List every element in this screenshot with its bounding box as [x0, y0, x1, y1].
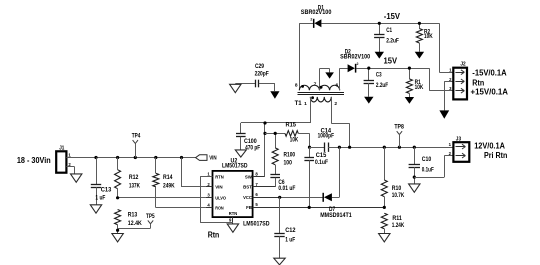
pin 5 FB: [253, 207, 385, 209]
svg-text:RTN: RTN: [215, 175, 224, 180]
wire VIN branch to pin2: [181, 158, 183, 188]
svg-text:100: 100: [284, 160, 293, 167]
wire T1 pin6 to D2: [339, 68, 341, 90]
svg-text:12.4K: 12.4K: [128, 220, 142, 227]
wire node X riser: [309, 133, 311, 147]
svg-text:MMSD914T1: MMSD914T1: [320, 212, 352, 219]
svg-text:2.2uF: 2.2uF: [386, 37, 399, 44]
svg-text:10K: 10K: [415, 84, 424, 91]
capacitor C29: [235, 63, 275, 91]
svg-text:137K: 137K: [129, 182, 140, 189]
ground (primary) at C29 left: [230, 84, 241, 92]
svg-text:1.24K: 1.24K: [392, 222, 405, 229]
svg-text:Pri Rtn: Pri Rtn: [484, 151, 508, 160]
svg-text:1000pF: 1000pF: [318, 133, 335, 140]
capacitor C3: [364, 67, 389, 97]
connector J3: [449, 136, 470, 162]
wire SW riser: [264, 123, 266, 177]
capacitor C100: [236, 123, 260, 151]
test point TP4: [132, 133, 141, 158]
svg-text:-15V/0.1A: -15V/0.1A: [472, 68, 507, 77]
ground Rtn at T1 pin7: [325, 72, 334, 78]
svg-text:C29: C29: [255, 63, 264, 70]
svg-text:J1: J1: [59, 145, 64, 151]
op-amp U2 LM5017SD body: [213, 158, 253, 217]
wire RON to pin4: [156, 207, 206, 209]
svg-text:J3: J3: [456, 136, 461, 142]
resistor R12: [115, 158, 141, 198]
pin 3 ULVO: [206, 197, 213, 199]
ground (primary) at C100: [235, 150, 246, 157]
wire 15V rail: [340, 68, 348, 70]
svg-text:R14: R14: [163, 174, 173, 181]
svg-text:C13: C13: [101, 187, 112, 194]
svg-text:1 uF: 1 uF: [95, 194, 105, 201]
svg-text:R100: R100: [284, 152, 296, 159]
svg-text:T1: T1: [295, 100, 303, 107]
svg-text:1: 1: [304, 101, 307, 106]
svg-text:-15V: -15V: [384, 12, 401, 21]
svg-text:C15: C15: [316, 152, 327, 159]
svg-text:2: 2: [334, 101, 337, 106]
wire -15V rail: [299, 23, 313, 25]
wire J1 pin2 to ground: [66, 166, 74, 168]
svg-text:SBR02V100: SBR02V100: [301, 9, 332, 16]
svg-text:2: 2: [310, 18, 312, 22]
wire J2 pin2 to Rtn: [444, 81, 453, 83]
svg-text:C3: C3: [376, 72, 382, 79]
pin 6 VCC: [253, 197, 280, 199]
svg-text:470 pF: 470 pF: [245, 144, 260, 151]
svg-text:TP5: TP5: [146, 213, 155, 220]
svg-text:10K: 10K: [424, 33, 433, 40]
svg-text:R13: R13: [128, 212, 138, 219]
ground (primary) at C12: [274, 258, 285, 265]
svg-text:6: 6: [336, 82, 339, 87]
test point TP5: [118, 213, 155, 229]
resistor R10: [381, 147, 404, 209]
svg-text:SW: SW: [245, 175, 253, 180]
ground (primary) at U2 pad: [227, 224, 238, 232]
svg-text:2.2uF: 2.2uF: [376, 82, 388, 89]
svg-text:R10: R10: [392, 185, 402, 192]
connector J2: [449, 62, 467, 100]
diode D2: [340, 49, 370, 73]
wire T1 pin2 to 12V line: [331, 97, 333, 124]
svg-text:10.7K: 10.7K: [392, 192, 405, 199]
svg-text:+15V/0.1A: +15V/0.1A: [471, 87, 509, 96]
ground Rtn under C3: [364, 97, 373, 104]
svg-text:VIN: VIN: [209, 155, 217, 161]
capacitor C12: [274, 197, 296, 258]
svg-text:ULVO: ULVO: [215, 196, 226, 201]
diode D7: [278, 193, 352, 219]
pin 1 RTN: [206, 176, 213, 178]
wire 15V to J2 pin3: [429, 68, 431, 90]
svg-text:C1: C1: [386, 27, 392, 34]
resistor R100: [272, 132, 295, 175]
pin 2 VIN: [206, 186, 213, 188]
svg-text:12V/0.1A: 12V/0.1A: [474, 141, 505, 150]
svg-text:8: 8: [295, 82, 298, 87]
ground Rtn under C1: [375, 52, 384, 59]
ground (primary) at J1 pin2: [71, 174, 82, 182]
svg-text:C12: C12: [285, 227, 296, 234]
svg-text:RON: RON: [215, 205, 224, 210]
pin 8 SW: [253, 176, 265, 178]
svg-text:Rtn: Rtn: [472, 78, 484, 87]
svg-text:249K: 249K: [163, 182, 175, 189]
svg-text:R12: R12: [129, 174, 139, 181]
svg-text:VCC: VCC: [243, 195, 252, 200]
svg-text:TP4: TP4: [132, 133, 141, 140]
resistor R11: [381, 213, 404, 233]
capacitor C10: [409, 147, 434, 184]
svg-text:220pF: 220pF: [255, 71, 269, 78]
svg-text:J2: J2: [460, 62, 465, 68]
ground (primary) at C10: [409, 184, 420, 192]
wire T1 pin8 riser: [299, 23, 301, 90]
resistor R15: [265, 122, 310, 144]
resistor R2: [416, 22, 433, 52]
svg-text:LM5017SD: LM5017SD: [243, 220, 270, 227]
wire pin1 RTN to pad ground: [200, 176, 212, 178]
resistor R1: [406, 67, 423, 98]
ground Rtn under R1: [405, 97, 414, 104]
ground Rtn at J2 pin2: [439, 110, 449, 118]
svg-text:R15: R15: [286, 122, 297, 129]
ground (primary) at R11: [379, 234, 390, 242]
svg-text:FB: FB: [246, 205, 252, 210]
wire D7 branch riser: [339, 147, 341, 197]
wire 12V line: [339, 147, 453, 149]
svg-text:TP8: TP8: [394, 124, 404, 131]
transformer T1 primary winding: [295, 96, 338, 107]
svg-text:1 uF: 1 uF: [285, 236, 295, 243]
capacitor C1: [374, 22, 399, 52]
wire input rail: [66, 157, 195, 159]
wire UVLO divider node to pin3: [118, 197, 206, 199]
wire T1 pin7 center tap to Rtn: [319, 69, 321, 91]
ground Rtn under R2: [415, 52, 424, 59]
transformer T1 core: [298, 92, 345, 94]
ground (primary) at C13: [90, 205, 101, 213]
node VIN flag: [196, 155, 217, 162]
resistor R13: [115, 210, 143, 234]
svg-text:0.01 uF: 0.01 uF: [278, 185, 295, 192]
capacitor C15: [304, 147, 328, 209]
ground Rtn at C29 right: [270, 91, 279, 98]
pin 7 BST: [253, 186, 276, 188]
svg-text:15V: 15V: [384, 56, 398, 65]
wire J3 pin2 to Pri Rtn: [444, 155, 453, 157]
transformer T1 secondary winding: [295, 82, 340, 91]
svg-text:0.1uF: 0.1uF: [315, 159, 328, 166]
resistor R14: [153, 158, 175, 208]
connector J1: [56, 145, 71, 172]
pin 4 RON: [206, 207, 213, 209]
svg-text:RTN: RTN: [229, 211, 238, 216]
capacitor C13: [91, 158, 112, 205]
svg-text:VIN: VIN: [215, 185, 223, 190]
capacitor C14: [310, 127, 340, 152]
svg-text:10K: 10K: [290, 136, 299, 143]
svg-text:18 - 30Vin: 18 - 30Vin: [17, 155, 51, 165]
ground (primary) at R13: [112, 234, 123, 242]
svg-text:0.1uF: 0.1uF: [422, 166, 434, 173]
diode D1: [301, 4, 332, 28]
svg-text:7: 7: [314, 82, 317, 87]
svg-text:Rtn: Rtn: [208, 230, 220, 239]
svg-text:LM5017SD: LM5017SD: [222, 163, 248, 170]
svg-text:BST: BST: [243, 185, 252, 190]
wire T1 pin1 to SW node: [310, 97, 312, 123]
svg-text:2: 2: [357, 62, 359, 66]
wire -15V to J2 pin1: [439, 23, 441, 72]
svg-text:C10: C10: [422, 156, 432, 163]
test point TP8: [394, 124, 404, 148]
capacitor C6: [270, 175, 295, 192]
svg-text:SBR02V100: SBR02V100: [340, 53, 370, 60]
